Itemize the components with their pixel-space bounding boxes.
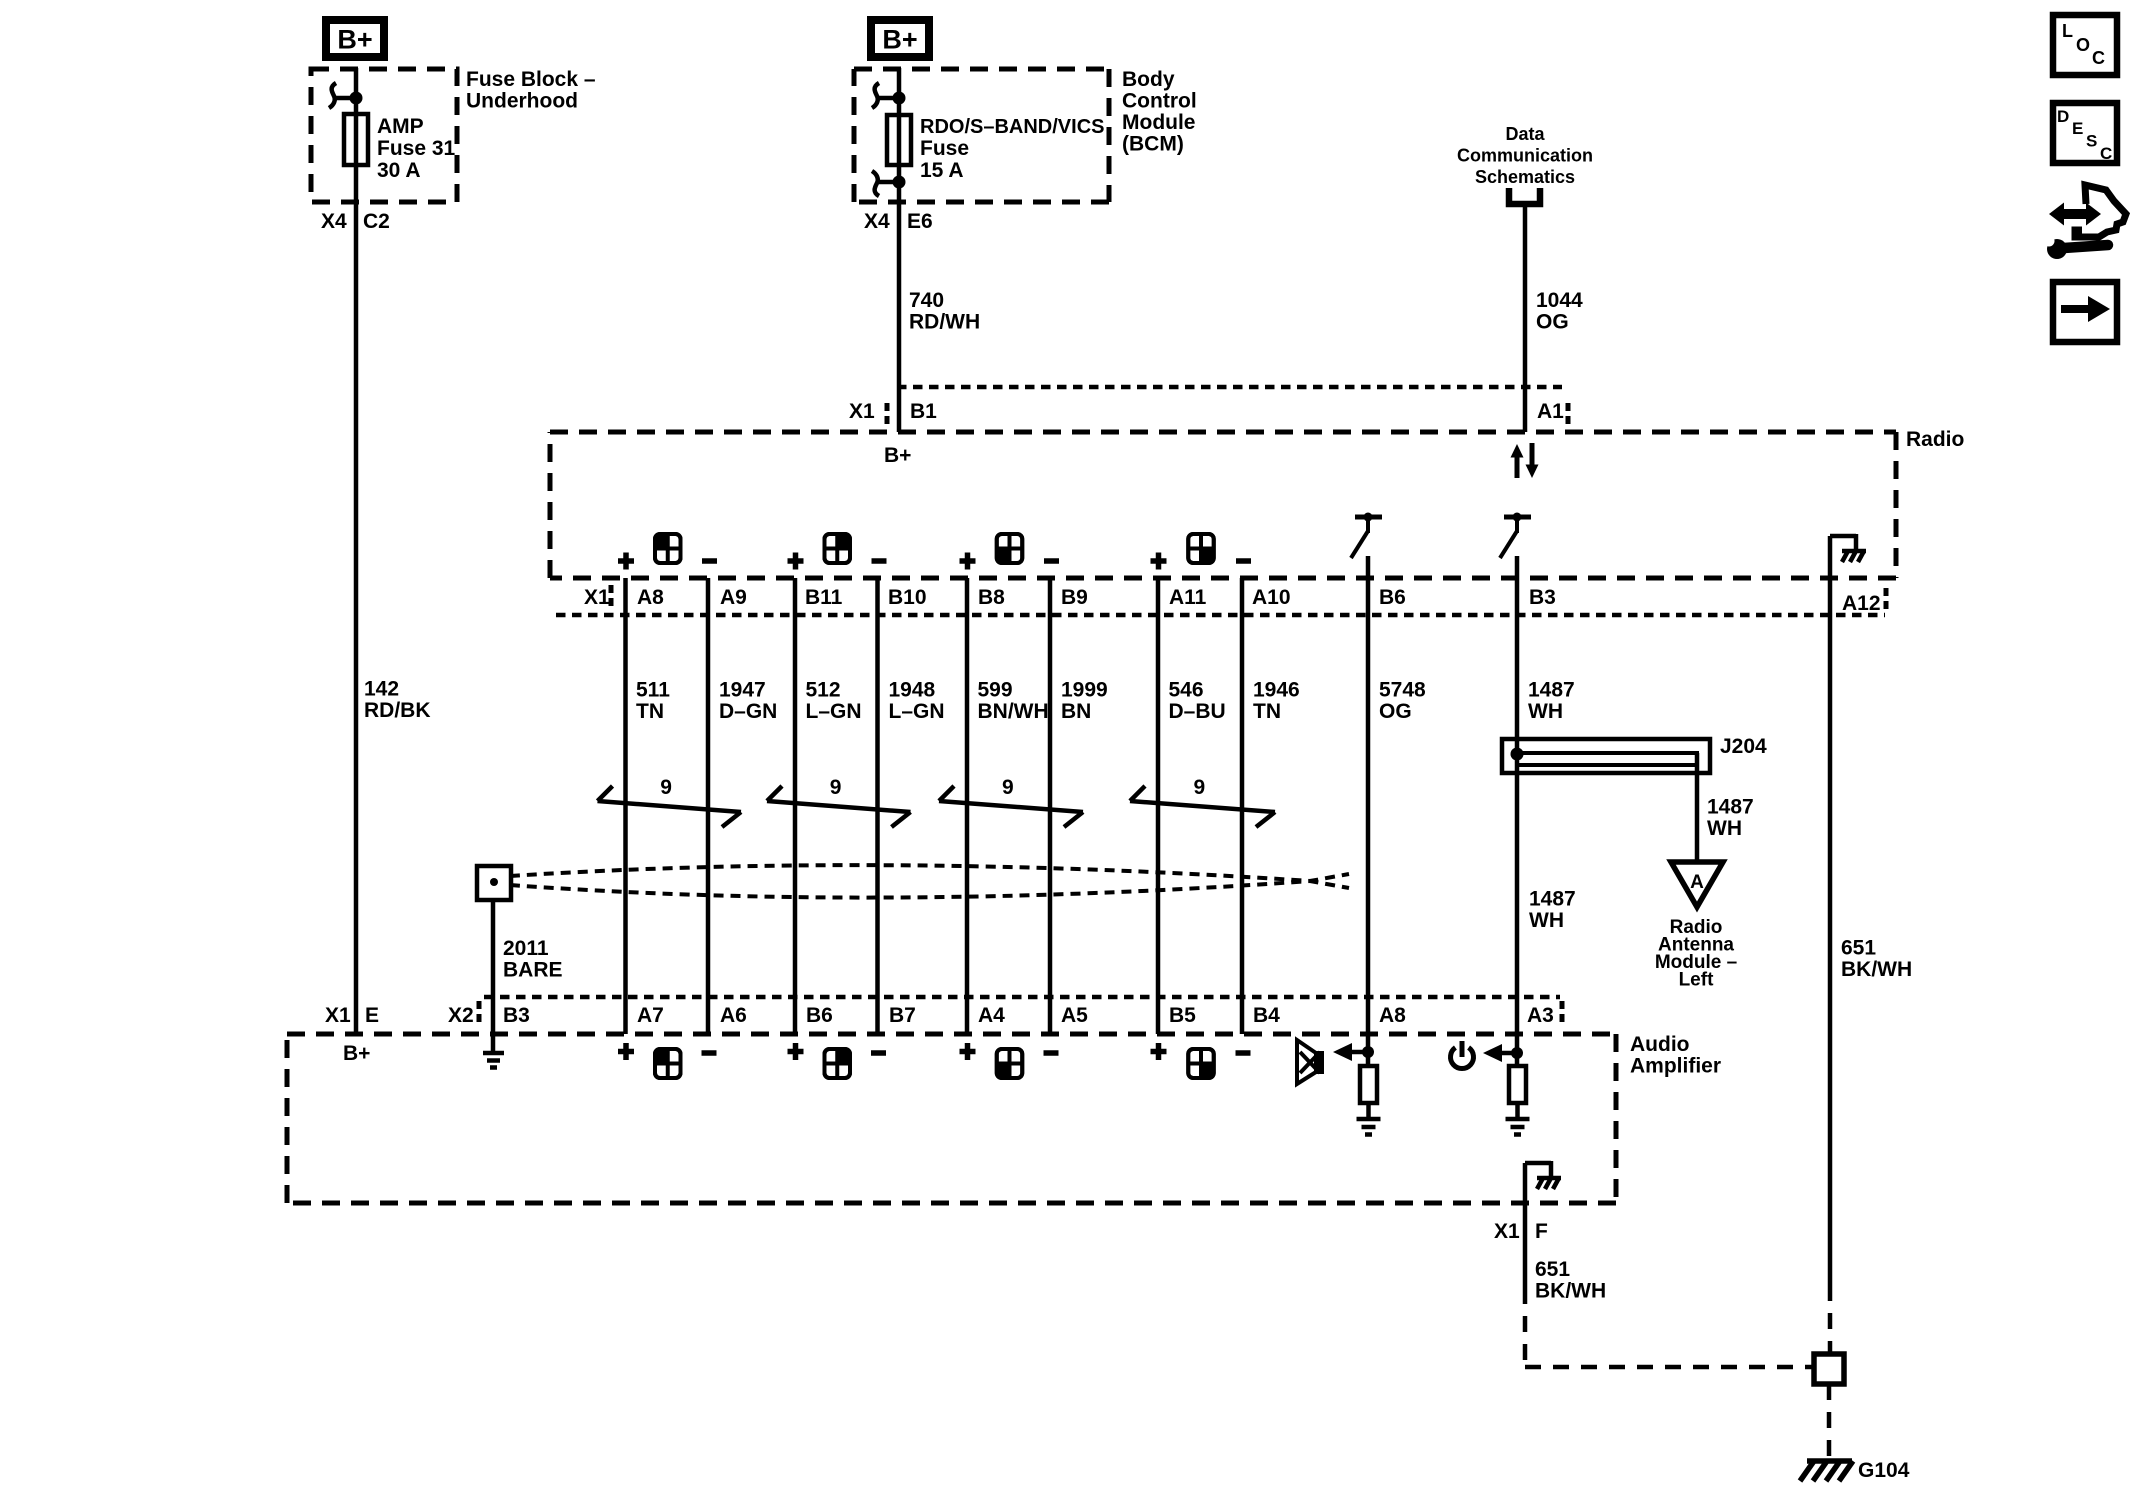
radio speaker output - sign at B10 [872,558,887,564]
wire 651 BK/WH (amp X1-F down, solid) [1523,1163,1528,1288]
radio top connector separator left of B1 [885,403,890,429]
svg-text:D: D [2057,107,2069,126]
wire 512 L–GN (radio B11 to amp B6) [793,578,798,1034]
label wire 142 RD/BK [364,678,431,723]
svg-text:Body: Body [1122,68,1175,91]
amp speaker input - sign at B4 [1236,1050,1251,1056]
label wire 511 TN [636,679,670,724]
svg-text:512: 512 [806,679,841,702]
svg-text:Module: Module [1122,111,1196,134]
radio speaker output - sign at A9 [702,558,717,564]
svg-text:A: A [1690,872,1704,893]
connector terminal hook above fuse 31 [329,83,363,108]
svg-text:A3: A3 [1527,1004,1554,1027]
svg-text:OG: OG [1536,311,1569,334]
radio bottom connector separator right of X1 [609,585,614,611]
svg-text:B11: B11 [805,586,843,609]
svg-text:A7: A7 [637,1004,664,1027]
svg-text:15 A: 15 A [920,159,964,182]
twisted pair symbol (B11/B10) [767,786,911,827]
svg-text:BARE: BARE [503,959,563,982]
svg-text:B6: B6 [806,1004,833,1027]
wire 142 RD/BK (fuse block C2 to amplifier X1-E) [354,68,359,1033]
svg-text:511: 511 [636,679,670,702]
svg-text:L–GN: L–GN [889,700,945,723]
svg-text:1487: 1487 [1528,679,1575,702]
svg-text:B4: B4 [1253,1004,1280,1027]
svg-text:X1: X1 [1494,1220,1520,1243]
amp speaker input + sign at A7 [618,1043,634,1060]
fuse F31 AMP Fuse 31 30 A [344,114,456,182]
label wire 1487 WH (above J204) [1528,679,1575,724]
speaker icon (BL quadrant) in radio [997,534,1023,563]
svg-text:X1: X1 [849,400,875,423]
label wire 2011 BARE [503,937,563,982]
LOC navigation box [2053,15,2117,75]
svg-text:A12: A12 [1842,592,1881,615]
svg-text:(BCM): (BCM) [1122,133,1184,156]
amp speaker input + sign at B5 [1151,1043,1167,1060]
earth ground in amp A3 branch [1506,1119,1530,1135]
svg-text:B9: B9 [1061,586,1088,609]
amp speaker input - sign at A5 [1044,1050,1059,1056]
antenna trigger symbol at radio B6 [1351,513,1382,559]
wire 651 BK/WH dashed (down from amp) [1523,1288,1528,1371]
svg-text:A6: A6 [720,1004,747,1027]
label data communication schematics [1457,124,1593,187]
svg-text:B6: B6 [1379,586,1406,609]
svg-text:651: 651 [1535,1258,1570,1281]
mute arrow at amp A8 [1333,1043,1374,1061]
radio speaker output - sign at B9 [1044,558,1059,564]
svg-text:X4: X4 [321,210,347,233]
svg-text:X2: X2 [448,1004,474,1027]
speaker icon (BR quadrant) in radio [1188,534,1214,563]
svg-text:E: E [2072,119,2083,138]
antenna connector symbol A [1671,862,1723,907]
svg-text:O: O [2076,35,2090,55]
svg-text:BK/WH: BK/WH [1841,958,1912,981]
audio amplifier dashed box [287,1034,1616,1203]
svg-text:RDO/S–BAND/VICS: RDO/S–BAND/VICS [920,116,1104,138]
wire 1044 OG (serial data to radio A1) [1523,207,1528,432]
speaker icon (TR quadrant) in amp [825,1049,851,1078]
wire 1948 L–GN (radio B10 to amp B7) [875,578,880,1034]
svg-text:L: L [2062,21,2073,41]
resistor in amp A8 branch [1360,1066,1377,1103]
svg-text:Data: Data [1505,124,1545,144]
radio bottom connector face (dotted) [556,613,1885,618]
speaker icon (TL quadrant) in radio [655,534,681,563]
label fuse block underhood [466,68,596,113]
amp internal ground at X1-F (hook) [1525,1161,1561,1189]
radio dashed box [550,432,1896,578]
svg-text:E6: E6 [907,210,933,233]
speaker icon (TR quadrant) in radio [825,534,851,563]
svg-text:A9: A9 [720,586,747,609]
svg-text:Communication: Communication [1457,146,1593,166]
svg-text:B+: B+ [882,25,917,55]
wire 1999 BN (radio B9 to amp A5) [1048,578,1053,1034]
earth ground in amp A8 branch [1357,1119,1381,1135]
svg-text:B+: B+ [884,444,911,467]
wire 1487 WH (radio B3 to amp A3) [1515,556,1520,1066]
svg-text:Underhood: Underhood [466,90,578,113]
svg-text:599: 599 [978,679,1013,702]
wire 651 BK/WH dashed (to ground G104) [1827,1384,1832,1459]
svg-text:B8: B8 [978,586,1005,609]
label wire 1946 TN [1253,679,1300,724]
forward arrow navigation box [2053,282,2117,342]
svg-text:J204: J204 [1720,735,1767,758]
svg-text:A1: A1 [1537,400,1564,423]
connector X4 / pin E6 labels (BCM) [864,210,933,233]
svg-text:1946: 1946 [1253,679,1300,702]
amp top connector face (dotted) [484,995,1560,1000]
radio speaker output + sign at B11 [788,553,804,570]
wire resistor to ground (A8 branch) [1366,1103,1371,1119]
svg-text:G104: G104 [1858,1459,1910,1482]
twisted pair symbol (A11/A10) [1130,786,1275,827]
svg-text:Fuse 31: Fuse 31 [377,137,456,160]
svg-text:142: 142 [364,678,399,701]
svg-text:BN/WH: BN/WH [978,700,1049,723]
svg-text:30 A: 30 A [377,159,421,182]
antenna trigger symbol at radio B3 [1500,513,1531,559]
vehicle/wrench navigation icon [2044,185,2127,259]
svg-text:TN: TN [1253,700,1281,723]
radio bottom connector pin labels [637,586,1556,609]
svg-text:B10: B10 [888,586,927,609]
svg-text:9: 9 [830,776,842,799]
svg-text:B3: B3 [503,1004,530,1027]
svg-text:2011: 2011 [503,937,549,960]
body control module dashed box [854,69,1109,202]
earth ground at amp B3 (drain) [483,1053,504,1068]
wire 2011 BARE (drain to amp X2-B3) [491,898,496,1052]
svg-text:AMP: AMP [377,115,424,138]
label wire 1948 L–GN [889,679,945,724]
power feed B+ terminal 1 (fuse block) [326,20,384,57]
svg-text:Fuse: Fuse [920,137,969,160]
label wire 546 D–BU [1169,679,1226,724]
svg-text:A8: A8 [637,586,664,609]
wire 1487 WH (J204 to antenna module) [1695,753,1700,862]
label audio amplifier [1630,1033,1721,1078]
radio speaker output - sign at A10 [1236,558,1251,564]
svg-text:B3: B3 [1529,586,1556,609]
svg-text:B1: B1 [910,400,937,423]
label wire 651 BK/WH (right) [1841,937,1912,982]
power arrow at amp A3 [1483,1044,1523,1062]
svg-text:Control: Control [1122,90,1197,113]
svg-text:F: F [1535,1220,1548,1243]
svg-text:1999: 1999 [1061,679,1108,702]
amp connector separator right of X2 [477,1001,482,1027]
amp bottom connector labels X1 F [1494,1220,1548,1243]
svg-text:9: 9 [660,776,672,799]
svg-text:L–GN: L–GN [806,700,862,723]
svg-text:X1: X1 [584,586,610,609]
svg-text:BK/WH: BK/WH [1535,1280,1606,1303]
svg-text:RD/BK: RD/BK [364,699,431,722]
svg-text:B7: B7 [889,1004,916,1027]
svg-text:9: 9 [1194,776,1206,799]
radio speaker output + sign at B8 [960,553,976,570]
svg-text:E: E [365,1004,379,1027]
amp connector pin labels [637,1004,1406,1027]
label wire 651 BK/WH (left) [1535,1258,1606,1303]
shield ellipse (dashed) [510,865,1349,897]
svg-text:B5: B5 [1169,1004,1196,1027]
label wire 512 L–GN [806,679,862,724]
svg-text:Audio: Audio [1630,1033,1689,1056]
speaker icon (BL quadrant) in amp [997,1049,1023,1078]
svg-text:Fuse Block –: Fuse Block – [466,68,596,91]
splice pack J204 [1502,735,1767,773]
wire 599 BN/WH (radio B8 to amp A4) [965,578,970,1034]
amp speaker input - sign at A6 [702,1050,717,1056]
svg-text:WH: WH [1529,909,1564,932]
wire 511 TN (radio A8 to amp A7) [623,578,628,1034]
radio top connector separator right of A1 [1566,403,1571,429]
svg-text:1044: 1044 [1536,289,1583,312]
label wire 1044 OG [1536,289,1583,334]
wire 1946 TN (radio A10 to amp B4) [1240,578,1245,1034]
svg-text:OG: OG [1379,700,1412,723]
mute speaker icon at amp A8 [1297,1040,1324,1084]
label wire 1947 D–GN [719,679,777,724]
wire 651 BK/WH dashed (radio branch down) [1828,1285,1833,1354]
svg-text:651: 651 [1841,937,1876,960]
wire resistor to ground (A3 branch) [1515,1103,1520,1119]
svg-text:B+: B+ [337,25,372,55]
svg-text:1948: 1948 [889,679,936,702]
wire 5748 OG (radio B6 to amp A8) [1366,556,1371,1066]
serial data arrows up/down at radio A1 [1511,443,1539,478]
svg-text:A10: A10 [1252,586,1291,609]
radio X1 top connector face (dotted) [897,385,1562,390]
svg-text:X4: X4 [864,210,890,233]
svg-text:S: S [2086,132,2097,151]
svg-text:740: 740 [909,289,944,312]
svg-text:C: C [2100,144,2112,163]
off-page connector bracket (data communication) [1509,188,1540,204]
radio bottom connector separator right of A12 [1884,588,1889,614]
svg-text:D–GN: D–GN [719,700,777,723]
svg-text:WH: WH [1707,817,1742,840]
svg-text:Left: Left [1679,970,1715,991]
wire 1947 D–GN (radio A9 to amp A6) [706,578,711,1034]
label wire 1999 BN [1061,679,1108,724]
radio internal ground at A12 (hook) [1830,534,1866,562]
svg-text:A5: A5 [1061,1004,1088,1027]
connector terminal hook below fuse RDO [872,171,906,196]
radio speaker output + sign at A8 [618,553,634,570]
wire 651 BK/WH (radio A12 down, solid) [1828,536,1833,1285]
svg-text:1487: 1487 [1707,796,1754,819]
label wire 740 RD/WH [909,289,980,334]
label wire 1487 WH (antenna branch) [1707,796,1754,841]
wire 740 RD/WH (BCM E6 to radio B1) [897,68,902,432]
svg-text:WH: WH [1528,700,1563,723]
svg-text:A8: A8 [1379,1004,1406,1027]
label radio antenna module - left [1655,917,1737,991]
amp speaker input + sign at B6 [788,1043,804,1060]
speaker icon (BR quadrant) in amp [1188,1049,1214,1078]
amp connector labels X1 E [325,1004,379,1027]
power feed B+ terminal 2 (BCM) [871,20,929,57]
svg-text:C: C [2092,48,2105,68]
DESC navigation box [2053,103,2117,163]
connector X4 / pin C2 labels (fuse block) [321,210,390,233]
amp connector separator right of A3 [1560,1001,1565,1027]
inline connector square (651 BK/WH junction) [1814,1354,1844,1384]
fuse RDO/S-BAND/VICS 15 A [887,115,1104,182]
svg-text:A11: A11 [1169,586,1207,609]
svg-text:BN: BN [1061,700,1091,723]
speaker icon (TL quadrant) in amp [655,1049,681,1078]
chassis ground G104 [1800,1461,1853,1481]
label wire 599 BN/WH [978,679,1049,724]
svg-text:B+: B+ [343,1042,370,1065]
svg-text:X1: X1 [325,1004,351,1027]
wire 546 D–BU (radio A11 to amp B5) [1156,578,1161,1034]
connector terminal hook above fuse RDO [872,83,906,108]
fuse block - underhood dashed box [311,69,457,202]
wire 651 BK/WH dashed (horizontal to splice) [1525,1365,1814,1370]
svg-text:D–BU: D–BU [1169,700,1226,723]
radio speaker output + sign at A11 [1151,553,1167,570]
shield drain junction box [477,866,511,900]
svg-text:546: 546 [1169,679,1204,702]
power on symbol at amp A3 [1451,1041,1474,1069]
svg-text:C2: C2 [363,210,390,233]
svg-text:Schematics: Schematics [1475,167,1575,187]
amp speaker input + sign at A4 [960,1043,976,1060]
amp speaker input - sign at B7 [871,1050,886,1056]
svg-text:1947: 1947 [719,679,766,702]
svg-text:Amplifier: Amplifier [1630,1055,1721,1078]
svg-text:5748: 5748 [1379,679,1426,702]
svg-text:TN: TN [636,700,664,723]
twisted pair symbol (A8/A9) [598,786,742,827]
radio top connector labels X1 B1 [849,400,937,423]
svg-text:9: 9 [1002,776,1014,799]
svg-text:1487: 1487 [1529,888,1576,911]
svg-text:RD/WH: RD/WH [909,311,980,334]
label body control module (BCM) [1122,68,1197,156]
svg-text:Radio: Radio [1906,428,1964,451]
resistor in amp A3 branch [1509,1066,1526,1103]
twisted pair symbol (B8/B9) [939,786,1083,827]
svg-text:A4: A4 [978,1004,1005,1027]
label wire 1487 WH (below J204) [1529,888,1576,933]
label wire 5748 OG [1379,679,1426,724]
